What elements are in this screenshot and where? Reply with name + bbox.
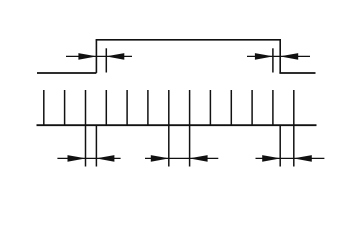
extension line below tick2	[85, 125, 87, 166]
extension line below tick12	[293, 125, 295, 166]
extension line at tick11 (top right)	[272, 48, 274, 72]
arrowhead tip at tick6 extension, pointing right	[151, 156, 166, 161]
pulse left low segment	[37, 72, 96, 74]
comb tick 12	[293, 90, 295, 125]
pulse falling edge	[279, 40, 281, 73]
comb tick 1	[64, 90, 66, 125]
pulse rising edge	[95, 40, 97, 73]
arrowhead tip at tick11 extension, pointing right	[255, 54, 270, 59]
dimension line bottom-right	[256, 157, 325, 159]
extension line below tick7	[189, 125, 191, 166]
arrowhead tip at tick2 extension, pointing right	[68, 156, 83, 161]
comb tick 7	[189, 90, 191, 125]
comb tick 6	[168, 90, 170, 125]
comb tick 0	[43, 90, 45, 125]
arrowhead tip at tick12 extension, pointing left	[296, 156, 311, 161]
extension line below baseline at rising-edge position	[95, 125, 97, 166]
arrowhead tip at tick7 extension, pointing left	[192, 156, 207, 161]
pulse right low segment	[279, 72, 315, 74]
extension line below baseline at falling-edge position	[279, 125, 281, 166]
comb tick 3	[105, 90, 107, 125]
comb tick 8	[209, 90, 211, 125]
comb tick 2	[85, 90, 87, 125]
dimension line bottom-middle	[145, 157, 218, 159]
arrowhead tip at falling-edge extension, pointing right	[263, 156, 278, 161]
dimension line top-right	[247, 55, 310, 57]
comb tick 11	[272, 90, 274, 125]
arrowhead tip at rising-edge extension, pointing left	[99, 156, 114, 161]
pulse top segment	[96, 39, 281, 41]
arrowhead tip at tick3 extension, pointing left	[109, 54, 124, 59]
comb baseline	[37, 124, 317, 126]
arrowhead tip at rising edge, pointing right	[79, 54, 94, 59]
extension line at tick3 (top left)	[105, 48, 107, 72]
dimension line top-left	[66, 55, 132, 57]
comb tick 9	[230, 90, 232, 125]
extension line below tick6	[168, 125, 170, 166]
comb tick 4	[126, 90, 128, 125]
comb tick 10	[251, 90, 253, 125]
arrowhead tip at falling edge, pointing left	[283, 54, 298, 59]
dimension line bottom-left	[57, 157, 120, 159]
comb tick 5	[147, 90, 149, 125]
